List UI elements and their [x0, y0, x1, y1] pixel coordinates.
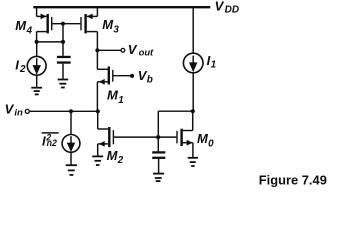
svg-text:M: M — [107, 148, 119, 163]
svg-text:V: V — [5, 102, 15, 117]
svg-text:Figure 7.49: Figure 7.49 — [259, 173, 327, 188]
svg-text:V: V — [128, 42, 138, 57]
svg-text:I: I — [42, 133, 46, 148]
svg-text:M: M — [107, 88, 119, 103]
svg-text:1: 1 — [211, 60, 216, 71]
svg-text:I: I — [15, 57, 19, 72]
svg-text:0: 0 — [208, 139, 214, 150]
svg-text:out: out — [139, 47, 154, 58]
svg-text:V: V — [215, 0, 225, 14]
svg-text:2: 2 — [19, 64, 26, 75]
svg-text:b: b — [147, 74, 153, 85]
svg-text:n2: n2 — [47, 138, 57, 148]
svg-text:3: 3 — [113, 24, 119, 35]
svg-text:M: M — [15, 18, 27, 33]
svg-text:2: 2 — [117, 155, 124, 166]
svg-text:1: 1 — [118, 95, 123, 106]
svg-text:4: 4 — [26, 26, 33, 37]
svg-text:M: M — [102, 17, 114, 32]
svg-text:DD: DD — [225, 5, 239, 16]
svg-text:in: in — [14, 107, 23, 118]
